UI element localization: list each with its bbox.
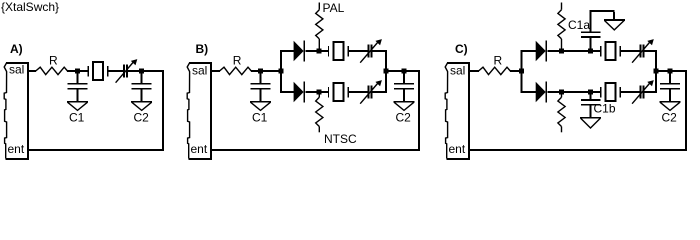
node B-PAL (junction) <box>317 49 322 54</box>
wire crystal to trimmer (B bottom) <box>349 91 368 93</box>
svg-text:{XtalSwch}: {XtalSwch} <box>1 0 59 14</box>
wire stub C2 <box>141 72 143 83</box>
svg-text:sal: sal <box>450 64 465 78</box>
wire left branch vertical (C) <box>521 50 523 93</box>
resistor pull-down (vertical, C bottom) <box>558 92 565 132</box>
wire sal-C to R <box>470 70 479 72</box>
wire trimmer to right vertical (B top) <box>373 50 387 52</box>
wire R-C to split node <box>510 70 519 72</box>
wire node C-R2 to node C-C1b <box>564 91 588 93</box>
resistor R (C) <box>479 67 511 74</box>
wire to diode D2 (C bottom) <box>523 91 537 93</box>
node B-NTSC (junction) <box>317 90 322 95</box>
module port C (sal/ent) <box>445 62 470 160</box>
wire crystal to trimmer (B top) <box>349 50 368 52</box>
wire trimmer A to node A2 <box>128 70 139 72</box>
crystal XTAL (C top branch) <box>600 41 621 61</box>
ground (C2) <box>131 101 152 110</box>
node B-C2 (junction) <box>402 69 407 74</box>
wire D2 to node C-R2 <box>548 91 560 93</box>
wire right branch vertical (B) <box>385 50 387 93</box>
ground (C1b) <box>580 117 601 128</box>
wire node C-R1 to node C-C1a <box>564 50 588 52</box>
wire stub C1 <box>260 72 262 83</box>
wire right branch vertical (C) <box>655 50 657 93</box>
wire node A2 to right edge, down and back to ent (A loop) <box>29 70 164 151</box>
svg-text:R: R <box>494 54 503 68</box>
wire sal-B to R <box>212 70 220 72</box>
wire node B-C2 to right edge, down and back to ent (B loop) <box>212 70 420 151</box>
svg-text:R: R <box>233 54 242 68</box>
wire node C-C2 to right edge, down and back to ent (C loop) <box>470 70 687 151</box>
node B1 (junction) <box>258 69 263 74</box>
wire stub C1 <box>77 72 79 83</box>
wire node C-right to node C-C2 <box>659 70 669 72</box>
svg-text:sal: sal <box>9 63 24 77</box>
capacitor C1a <box>581 10 615 49</box>
capacitor C2 <box>660 83 680 101</box>
wire D1 to node C-R1 <box>548 50 560 52</box>
wire to diode D1 (B top) <box>282 50 294 52</box>
crystal XTAL (C bottom branch) <box>600 82 621 102</box>
capacitor C1b <box>581 93 601 117</box>
wire stub C2 <box>403 72 405 83</box>
ground (C1) <box>250 101 271 110</box>
wire node B-PAL to crystal <box>322 50 330 52</box>
svg-text:B): B) <box>196 42 209 56</box>
trimmer capacitor (C top branch) <box>632 39 654 63</box>
diode D2 (B bottom branch) <box>294 82 306 103</box>
module port A (sal/ent) <box>4 62 29 160</box>
svg-text:C1: C1 <box>252 111 268 125</box>
node B-right (junction) <box>384 69 389 74</box>
diode D2 (C bottom branch) <box>536 82 548 103</box>
crystal XTAL (B bottom branch) <box>328 82 349 102</box>
svg-text:C2: C2 <box>662 111 678 125</box>
svg-text:R: R <box>49 54 58 68</box>
crystal XTAL (B top branch) <box>328 41 349 61</box>
wire to diode D1 (C top) <box>523 50 537 52</box>
ground (C1) <box>67 101 88 110</box>
resistor R (B) <box>220 67 252 74</box>
node C-split (junction) <box>519 69 524 74</box>
trimmer capacitor (B top branch) <box>360 39 382 63</box>
resistor NTSC pull-down (vertical) <box>316 92 323 132</box>
ground (C2) <box>394 101 415 110</box>
wire trimmer to right vertical (C bottom) <box>645 91 657 93</box>
wire to diode D2 (B bottom) <box>282 91 294 93</box>
svg-text:ent: ent <box>8 142 25 156</box>
wire R-B to node B1 <box>251 70 258 72</box>
svg-text:C2: C2 <box>134 111 150 125</box>
trimmer capacitor (C bottom branch) <box>632 80 654 104</box>
svg-text:PAL: PAL <box>323 1 345 15</box>
wire node A1 to crystal A <box>80 70 88 72</box>
node C-C1a (junction) <box>588 49 593 54</box>
node B-split (junction) <box>279 69 284 74</box>
svg-text:A): A) <box>10 42 23 56</box>
svg-text:C1a: C1a <box>568 18 590 32</box>
diode D1 (B top branch) <box>294 41 306 62</box>
wire trimmer to right vertical (C top) <box>645 50 657 52</box>
wire crystal A to trimmer A <box>109 70 124 72</box>
wire crystal to trimmer (C bottom) <box>621 91 640 93</box>
wire D1 to node B-PAL <box>306 50 318 52</box>
diode D1 (C top branch) <box>536 41 548 62</box>
node C-R2 (junction) <box>559 90 564 95</box>
wire trimmer to right vertical (B bottom) <box>373 91 387 93</box>
crystal XTAL (A) <box>87 61 108 81</box>
ground (C1a) <box>604 19 625 30</box>
svg-text:ent: ent <box>191 142 208 156</box>
resistor R (A) <box>36 67 68 74</box>
node C-C1b (junction) <box>588 90 593 95</box>
trimmer capacitor (A) <box>116 59 138 83</box>
wire node C-C1b to crystal <box>593 91 600 93</box>
module port B (sal/ent) <box>187 62 212 160</box>
wire crystal to trimmer (C top) <box>621 50 640 52</box>
node A2 (junction) <box>139 69 144 74</box>
wire node C-C1a to crystal <box>593 50 600 52</box>
wire stub C2 <box>669 72 671 83</box>
wire sal-A to R <box>29 70 36 72</box>
trimmer capacitor (B bottom branch) <box>360 80 382 104</box>
wire left branch vertical (B) <box>280 50 282 93</box>
capacitor C2 <box>132 83 152 101</box>
svg-text:sal: sal <box>192 64 207 78</box>
wire node B1 to split node <box>263 70 281 72</box>
svg-text:C): C) <box>455 42 468 56</box>
wire R-A to node A1 <box>67 70 76 72</box>
capacitor C1 <box>251 83 271 101</box>
resistor PAL pull-up (vertical) <box>316 3 323 49</box>
svg-text:ent: ent <box>449 142 466 156</box>
wire D2 to node B-NTSC <box>306 91 318 93</box>
ground (C2) <box>660 101 681 110</box>
resistor pull-up (vertical, C top) <box>558 3 565 49</box>
node C-right (junction) <box>654 69 659 74</box>
svg-text:C2: C2 <box>396 111 412 125</box>
wire node B-NTSC to crystal <box>322 91 330 93</box>
node C-R1 (junction) <box>559 49 564 54</box>
capacitor C1 <box>68 83 88 101</box>
node C-C2 (junction) <box>668 69 673 74</box>
node A1 (junction) <box>75 69 80 74</box>
svg-text:NTSC: NTSC <box>324 132 357 146</box>
capacitor C2 <box>394 83 414 101</box>
wire node B-right to node B-C2 <box>389 70 403 72</box>
svg-text:C1b: C1b <box>594 102 616 116</box>
svg-text:C1: C1 <box>69 111 85 125</box>
